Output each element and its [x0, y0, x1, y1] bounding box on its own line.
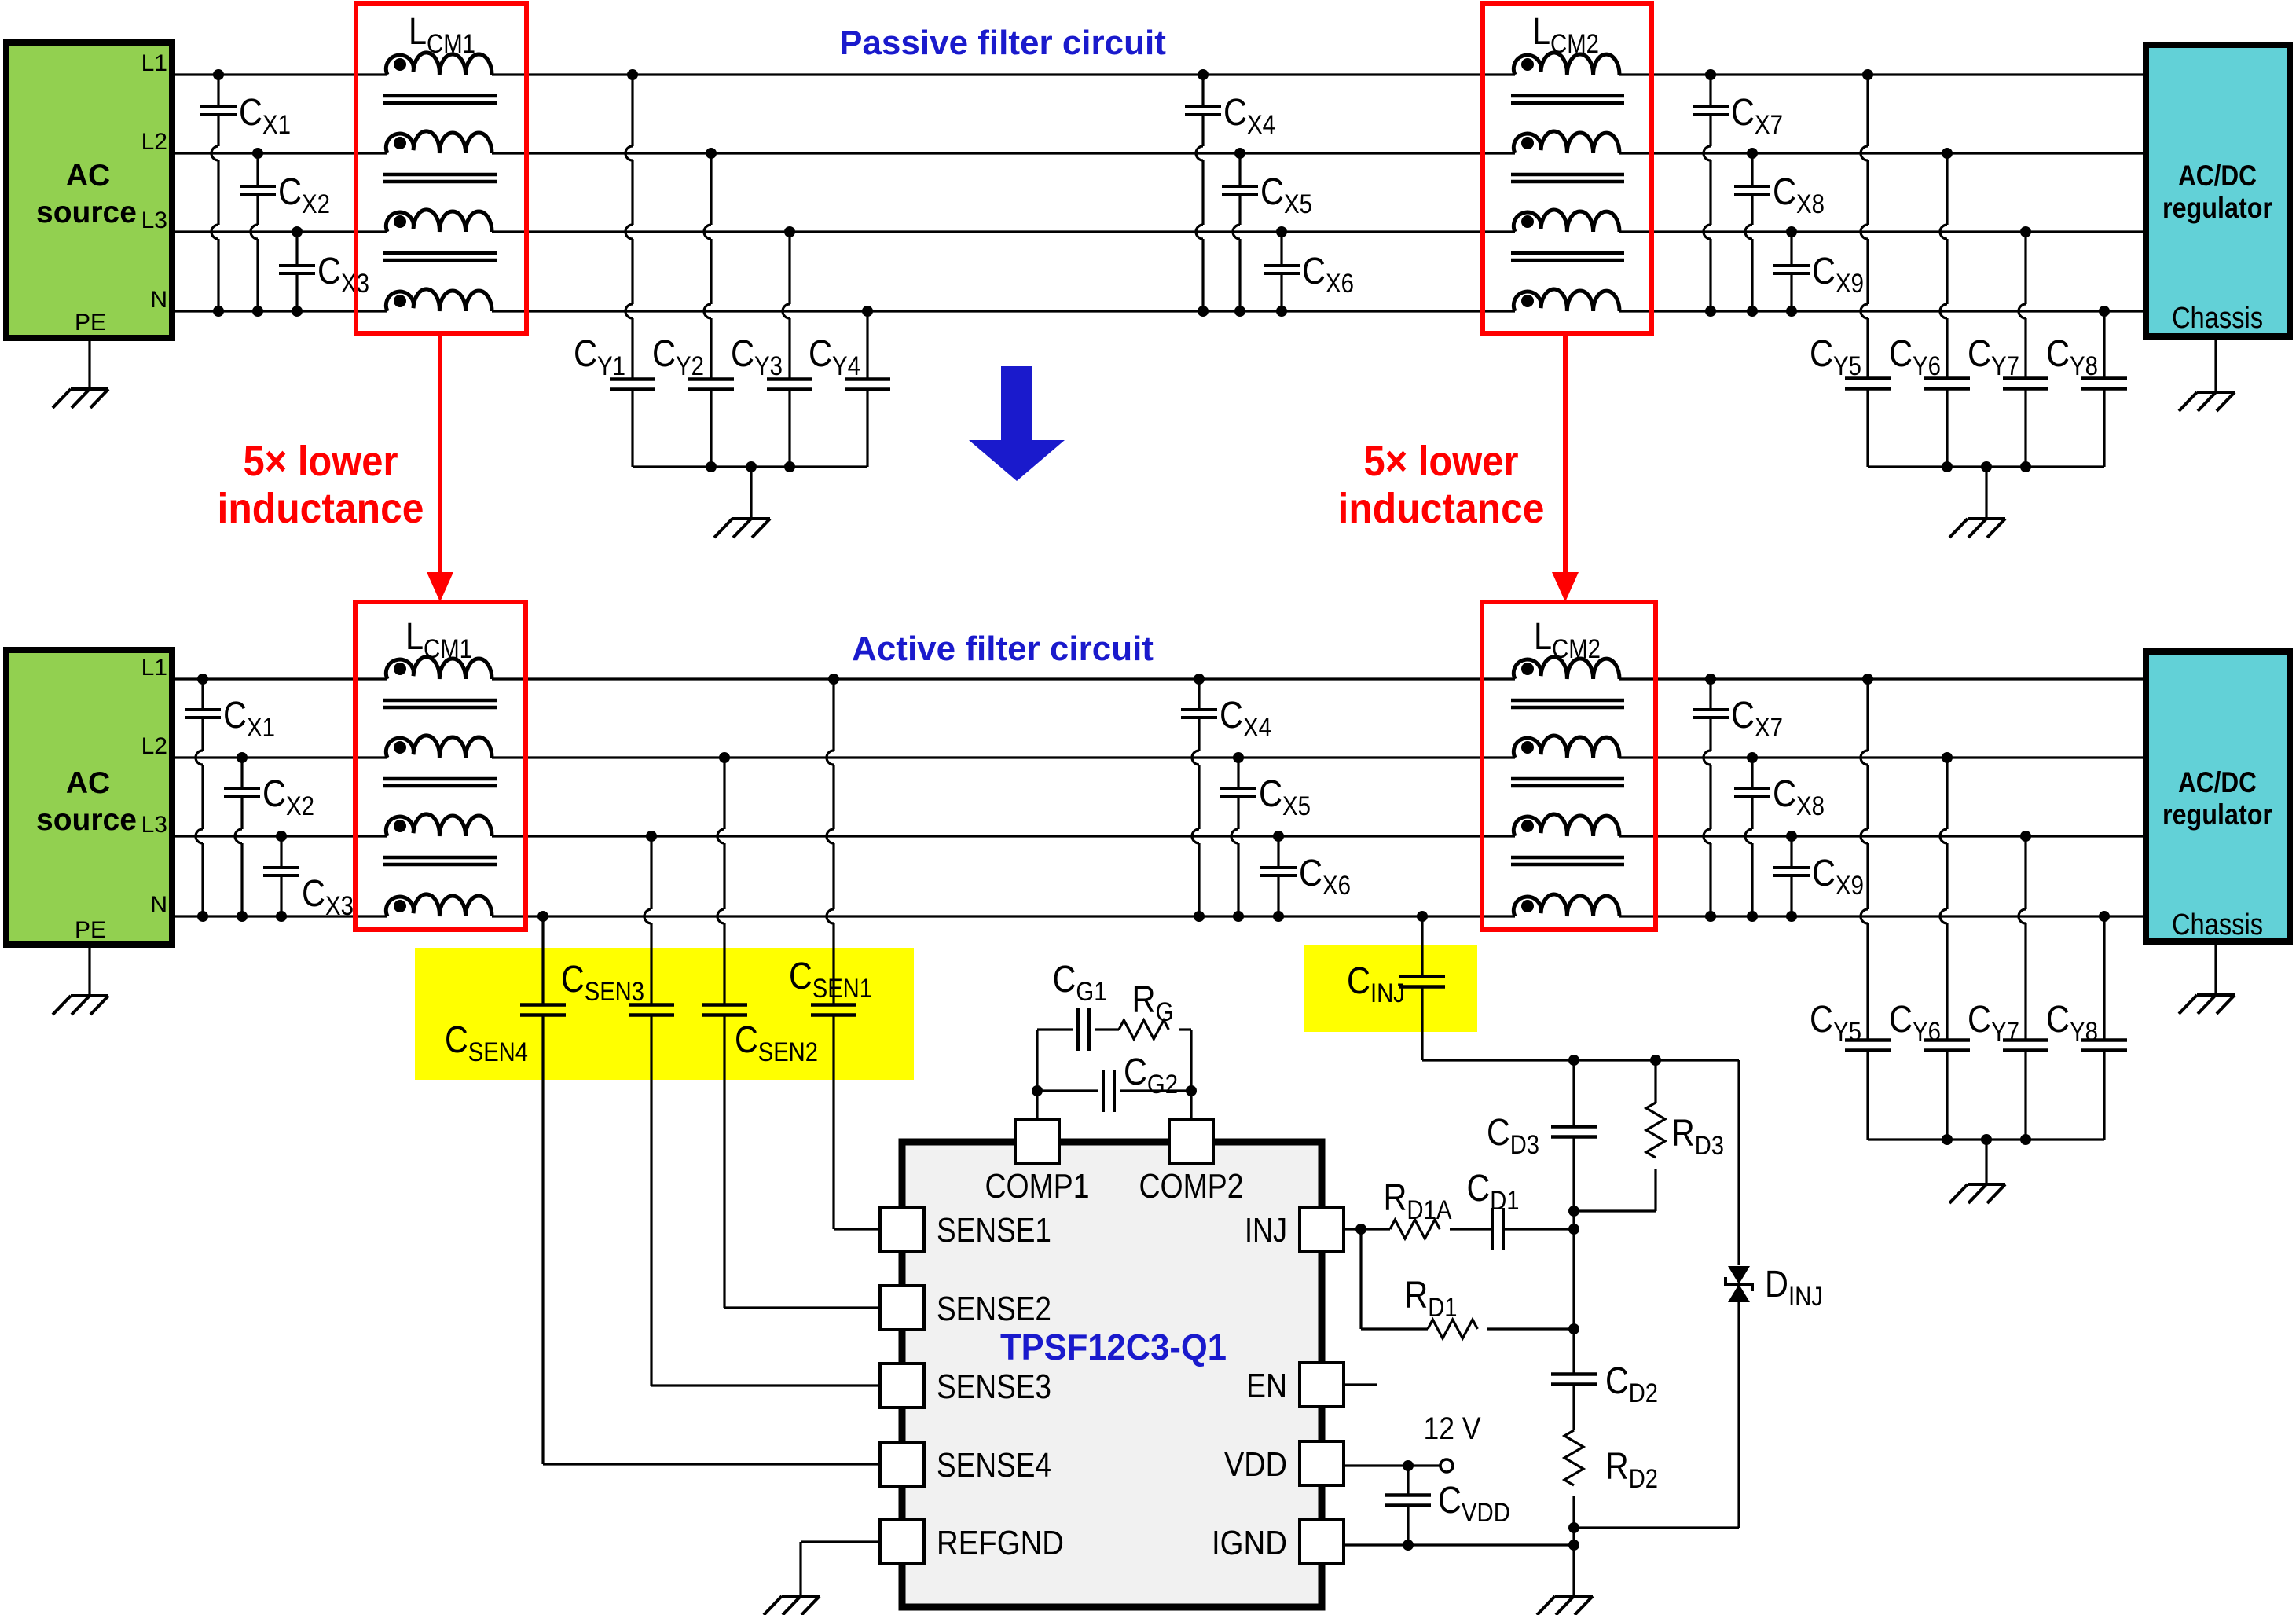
svg-text:INJ: INJ [1245, 1211, 1287, 1250]
svg-text:source: source [36, 803, 137, 837]
choke LCM2 box (bottom) [1482, 602, 1656, 930]
svg-text:L3: L3 [141, 812, 167, 838]
svg-text:N: N [150, 892, 167, 918]
svg-text:CY7: CY7 [1968, 333, 2019, 381]
wire CG1-RG rail [1036, 1030, 1038, 1091]
pin IGND [1300, 1520, 1344, 1564]
choke LCM2 cores (top) [1511, 94, 1624, 98]
node INJ junction [1568, 1224, 1579, 1235]
svg-text:RD3: RD3 [1671, 1113, 1724, 1161]
capacitor CSEN4 (bottom) [541, 916, 544, 1005]
capacitor CX2 (bottom) [240, 758, 243, 788]
capacitor CY5 (top) [1866, 75, 1869, 146]
wire SENSE1 (bottom) [834, 1228, 882, 1230]
svg-text:L2: L2 [141, 129, 167, 155]
svg-text:CY6: CY6 [1889, 999, 1941, 1047]
choke LCM1 box (top) [356, 3, 526, 333]
capacitor CX1 (top) [217, 75, 219, 107]
svg-text:CD3: CD3 [1487, 1112, 1539, 1160]
CY5-8 bus wire (bottom) [1868, 1138, 2104, 1140]
svg-text:regulator: regulator [2162, 192, 2272, 224]
svg-text:SENSE3: SENSE3 [937, 1367, 1051, 1406]
wire N (top) [175, 310, 387, 312]
highlight CSEN group [415, 948, 914, 1080]
node RD2 bottom junction [1568, 1522, 1579, 1533]
CY5-8 ground wire (top) [1985, 467, 1987, 519]
capacitor CSEN2 (bottom) [723, 758, 725, 829]
wire CD2 to RD2 [1572, 1384, 1575, 1430]
AC source box (bottom) [6, 650, 172, 945]
svg-text:CX9: CX9 [1812, 251, 1864, 299]
svg-text:LCM1: LCM1 [405, 616, 472, 664]
svg-text:COMP2: COMP2 [1139, 1167, 1244, 1206]
capacitor CX3 (top) [295, 232, 298, 266]
choke LCM2 box (top) [1483, 3, 1652, 333]
svg-text:CX7: CX7 [1731, 92, 1783, 140]
choke LCM1 cores (top) [383, 94, 497, 98]
svg-text:L1: L1 [141, 50, 167, 76]
capacitor CX1 (bottom) [201, 679, 204, 710]
resistor RD1 [1428, 1320, 1477, 1338]
svg-text:AC/DC: AC/DC [2178, 766, 2257, 798]
wire COMP2 to node B [1190, 1091, 1192, 1120]
wire REFGND to ground [801, 1540, 882, 1543]
capacitor CY7 (top) [2024, 232, 2026, 304]
pin SENSE2 [880, 1286, 924, 1330]
wire N (bottom) [175, 915, 387, 917]
svg-text:CX1: CX1 [239, 92, 291, 140]
wire SENSE3 (bottom) [651, 1384, 882, 1386]
wire center divider [1572, 1211, 1575, 1229]
svg-text:LCM2: LCM2 [1532, 11, 1599, 59]
capacitor CX4 (top) [1201, 75, 1204, 107]
svg-text:CY4: CY4 [809, 333, 860, 381]
svg-text:CX6: CX6 [1302, 251, 1354, 299]
svg-text:CX9: CX9 [1812, 853, 1864, 901]
chassis ground symbol (top) [2197, 391, 2235, 394]
svg-text:12 V: 12 V [1424, 1411, 1481, 1446]
wire L1 (top) [175, 73, 387, 75]
CY5-8 ground symbol (bottom) [1968, 1183, 2005, 1186]
svg-text:inductance: inductance [218, 485, 424, 532]
capacitor CX9 (top) [1790, 232, 1792, 266]
svg-text:REFGND: REFGND [937, 1524, 1064, 1562]
wire RD1 branch [1359, 1229, 1362, 1329]
resistor RD1A [1390, 1220, 1440, 1239]
svg-text:EN: EN [1246, 1367, 1287, 1405]
capacitor CY7 (bottom) [2024, 836, 2026, 909]
choke LCM2 windings (bottom) [1513, 657, 1619, 679]
CY5-8 ground wire (bottom) [1985, 1140, 1987, 1184]
capacitor CX5 (bottom) [1237, 758, 1239, 788]
svg-text:CY8: CY8 [2046, 333, 2098, 381]
svg-text:CX8: CX8 [1773, 773, 1825, 821]
pin VDD [1300, 1441, 1344, 1485]
svg-text:CY1: CY1 [574, 333, 625, 381]
capacitor CY4 (top) [866, 311, 868, 380]
capacitor CX8 (bottom) [1751, 758, 1753, 788]
capacitor CG1 [1076, 1008, 1080, 1051]
PE ground wire (top) [88, 341, 90, 389]
svg-text:CX8: CX8 [1773, 171, 1825, 219]
svg-text:CX5: CX5 [1259, 773, 1311, 821]
capacitor CY5 (bottom) [1866, 679, 1869, 751]
capacitor CX4 (bottom) [1198, 679, 1200, 710]
capacitor CX9 (bottom) [1790, 836, 1792, 868]
capacitor CINJ (bottom) [1421, 916, 1423, 977]
svg-text:CX7: CX7 [1731, 695, 1783, 743]
wire L2 (top) [175, 152, 387, 154]
capacitor CSEN3 (bottom) [650, 836, 652, 909]
node RD1 junction [1568, 1323, 1579, 1334]
wire L2 (bottom) [175, 756, 387, 758]
capacitor CX5 (top) [1238, 153, 1241, 186]
capacitor CD2 [1551, 1372, 1597, 1376]
wire SENSE4 (bottom) [543, 1463, 882, 1465]
svg-text:TPSF12C3-Q1: TPSF12C3-Q1 [1000, 1327, 1227, 1367]
IC TPSF12C3-Q1 body [902, 1142, 1322, 1607]
choke LCM1 box (bottom) [355, 602, 526, 930]
svg-text:DINJ: DINJ [1765, 1264, 1823, 1312]
svg-text:CX2: CX2 [262, 773, 314, 821]
capacitor CG2 [1102, 1070, 1105, 1112]
chassis ground wire (bottom) [2214, 941, 2217, 995]
svg-text:PE: PE [75, 310, 106, 336]
svg-text:CY6: CY6 [1889, 333, 1941, 381]
capacitor CY8 (top) [2103, 311, 2105, 379]
wire L3 (bottom) [175, 835, 387, 837]
highlight CINJ [1304, 945, 1477, 1032]
capacitor CX6 (top) [1280, 232, 1282, 266]
svg-text:L3: L3 [141, 207, 167, 233]
svg-text:CX2: CX2 [278, 171, 330, 219]
svg-text:CG2: CG2 [1124, 1052, 1178, 1099]
TVS diode DINJ [1728, 1266, 1750, 1284]
svg-text:SENSE2: SENSE2 [937, 1290, 1051, 1328]
svg-text:regulator: regulator [2162, 798, 2272, 831]
capacitor CX3 (bottom) [280, 836, 282, 868]
capacitor CX7 (bottom) [1709, 679, 1711, 710]
svg-text:CY7: CY7 [1968, 999, 2019, 1047]
capacitor CY6 (top) [1946, 153, 1948, 225]
svg-text:CY5: CY5 [1810, 333, 1861, 381]
svg-text:CVDD: CVDD [1438, 1480, 1510, 1528]
chassis ground wire (top) [2214, 340, 2217, 392]
svg-text:RG: RG [1132, 979, 1174, 1027]
PE ground wire (bottom) [88, 948, 90, 996]
capacitor CX7 (top) [1709, 75, 1711, 107]
svg-text:Chassis: Chassis [2172, 908, 2263, 941]
capacitor CD3 [1572, 1060, 1575, 1127]
wire VDD to 12V [1344, 1464, 1440, 1466]
red arrow right [1563, 333, 1568, 574]
wire DINJ branch [1737, 1060, 1740, 1265]
pin SENSE3 [880, 1364, 924, 1408]
svg-text:CX5: CX5 [1260, 171, 1312, 219]
svg-text:RD1A: RD1A [1384, 1177, 1452, 1225]
wire EN stub [1344, 1383, 1377, 1386]
svg-text:L2: L2 [141, 733, 167, 759]
svg-text:source: source [36, 196, 137, 229]
svg-text:AC: AC [66, 766, 110, 800]
choke LCM1 cores (bottom) [383, 699, 497, 703]
svg-text:RD1: RD1 [1405, 1275, 1458, 1323]
AC source box (top) [6, 42, 172, 338]
svg-text:CG1: CG1 [1053, 959, 1107, 1007]
svg-text:LCM1: LCM1 [409, 11, 475, 59]
divider ground symbol [1555, 1595, 1593, 1598]
capacitor CX8 (top) [1751, 153, 1753, 186]
choke LCM2 cores (bottom) [1511, 699, 1624, 703]
svg-text:CD2: CD2 [1605, 1360, 1658, 1408]
CY ground symbol (top) [732, 517, 770, 520]
wire SENSE2 (bottom) [724, 1306, 882, 1309]
svg-text:Chassis: Chassis [2172, 302, 2263, 335]
svg-text:SENSE4: SENSE4 [937, 1446, 1051, 1485]
capacitor CY6 (bottom) [1946, 758, 1948, 829]
choke LCM1 windings (bottom) [386, 657, 492, 679]
pin COMP1 [1015, 1120, 1059, 1164]
svg-text:CX4: CX4 [1223, 92, 1275, 140]
CY bus wire (top) [633, 465, 867, 468]
svg-text:CX6: CX6 [1299, 853, 1351, 901]
pin SENSE1 [880, 1207, 924, 1251]
wire L3 (top) [175, 230, 387, 233]
choke LCM1 windings (top) [386, 53, 492, 75]
svg-text:AC: AC [66, 159, 110, 193]
capacitor CY3 (top) [788, 232, 790, 304]
pin REFGND [880, 1520, 924, 1564]
wire L1 (bottom) [175, 677, 387, 680]
svg-text:inductance: inductance [1338, 485, 1545, 532]
resistor RG [1119, 1020, 1168, 1039]
resistor RD2 [1564, 1430, 1583, 1485]
blue arrow [969, 366, 1065, 481]
12V terminal circle [1440, 1459, 1453, 1472]
resistor RD3 [1654, 1060, 1656, 1103]
wire CG2 branch [1037, 1089, 1098, 1092]
svg-text:CX3: CX3 [302, 873, 354, 921]
choke LCM2 windings (top) [1513, 53, 1619, 75]
svg-text:CX3: CX3 [317, 251, 369, 299]
CY5-8 ground symbol (top) [1968, 517, 2005, 520]
svg-text:CD1: CD1 [1467, 1168, 1520, 1216]
svg-text:N: N [150, 287, 167, 313]
svg-text:IGND: IGND [1212, 1524, 1287, 1562]
wire COMP1 to node A [1036, 1091, 1038, 1120]
svg-text:5× lower: 5× lower [1364, 438, 1519, 485]
CY5-8 bus wire (top) [1868, 465, 2104, 468]
AC/DC regulator box (top) [2146, 45, 2290, 336]
svg-text:LCM2: LCM2 [1534, 616, 1601, 664]
capacitor CY1 (top) [631, 75, 633, 146]
wire IGND [1344, 1543, 1574, 1546]
capacitor CD1 [1450, 1228, 1492, 1230]
svg-text:Active filter circuit: Active filter circuit [852, 629, 1154, 668]
capacitor CY2 (top) [710, 153, 712, 225]
AC/DC regulator box (bottom) [2146, 652, 2290, 941]
pin EN [1300, 1363, 1344, 1407]
svg-text:L1: L1 [141, 655, 167, 681]
svg-text:CX4: CX4 [1220, 695, 1271, 743]
PE ground symbol (bottom) [71, 994, 108, 997]
red arrow left [438, 333, 442, 574]
svg-text:SENSE1: SENSE1 [937, 1211, 1051, 1250]
svg-text:5× lower: 5× lower [244, 438, 398, 485]
pin COMP2 [1169, 1120, 1213, 1164]
svg-text:CY2: CY2 [652, 333, 704, 381]
capacitor CSEN1 (bottom) [832, 679, 834, 751]
chassis ground symbol (bottom) [2197, 993, 2235, 997]
CY ground wire (top) [750, 467, 752, 519]
REFGND ground symbol [782, 1595, 820, 1598]
svg-text:COMP1: COMP1 [985, 1167, 1090, 1206]
svg-text:VDD: VDD [1224, 1445, 1287, 1484]
capacitor CX6 (bottom) [1277, 836, 1279, 868]
pin INJ [1300, 1207, 1344, 1251]
svg-text:CY8: CY8 [2046, 999, 2098, 1047]
svg-text:Passive filter circuit: Passive filter circuit [839, 24, 1166, 62]
svg-text:CY3: CY3 [731, 333, 783, 381]
PE ground symbol (top) [71, 387, 108, 391]
svg-text:CX1: CX1 [223, 695, 275, 743]
pin SENSE4 [880, 1442, 924, 1486]
wire INJ to RD1A [1344, 1228, 1390, 1230]
capacitor CY8 (bottom) [2103, 916, 2105, 1041]
capacitor CX2 (top) [256, 153, 259, 186]
wire divider to ground [1572, 1528, 1575, 1596]
svg-text:AC/DC: AC/DC [2178, 160, 2257, 192]
wire CINJ to divider [1422, 1059, 1739, 1061]
capacitor CVDD [1407, 1466, 1409, 1495]
svg-text:CY5: CY5 [1810, 999, 1861, 1047]
svg-text:RD2: RD2 [1605, 1446, 1658, 1494]
svg-text:PE: PE [75, 917, 106, 943]
